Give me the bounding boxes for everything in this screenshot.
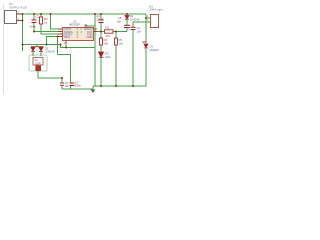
svg-text:SUPPLY 9-12V: SUPPLY 9-12V (10, 6, 28, 10)
capacitor C7 (70, 83, 75, 86)
capacitor C4 (99, 20, 104, 23)
switch S1 body (33, 58, 43, 66)
svg-text:1k: 1k (44, 21, 48, 25)
svg-text:GREEN: GREEN (150, 48, 159, 52)
wire OUT net (94, 31, 105, 33)
svg-text:D2: D2 (130, 14, 134, 18)
svg-text:LED: LED (105, 55, 110, 59)
svg-text:100n: 100n (30, 25, 37, 29)
svg-text:10n: 10n (137, 30, 142, 34)
resistor R5 (115, 38, 118, 45)
wire TRIG branch to C7 (58, 37, 71, 83)
wire jog to y47.5 (61, 45, 96, 48)
wire VCC pin branch (86, 26, 95, 27)
svg-text:C4: C4 (97, 14, 101, 18)
svg-text:D4: D4 (150, 44, 154, 48)
diode D1b (39, 47, 43, 51)
wire THRES net (34, 31, 62, 33)
capacitor C1 (32, 20, 37, 23)
LED D3 (99, 52, 104, 57)
wire x127 column (126, 14, 128, 15)
svg-text:C1: C1 (36, 15, 40, 19)
svg-text:P1: P1 (10, 2, 14, 6)
svg-text:C5: C5 (118, 16, 122, 20)
wire box bottom down (38, 71, 62, 78)
resistor R2 (105, 30, 114, 33)
capacitor C2 (131, 27, 136, 29)
resistor R6 coil (36, 66, 41, 71)
svg-text:10u: 10u (117, 19, 122, 23)
wire R1 top lead (40, 14, 42, 17)
wire R1 bottom to RESET (41, 24, 62, 34)
svg-text:10k: 10k (119, 42, 124, 46)
junction dots (22, 13, 147, 87)
ground (91, 90, 96, 94)
capacitor C5 (124, 25, 130, 27)
wire C4 top lead (100, 14, 102, 20)
wire node row y44 (23, 44, 61, 46)
diode D1a (31, 47, 44, 52)
svg-text:10k: 10k (104, 42, 109, 46)
resistor R3 (100, 38, 103, 45)
svg-text:R2: R2 (106, 26, 110, 30)
resistor R1 (40, 17, 43, 24)
svg-text:100R: 100R (35, 61, 41, 65)
svg-text:1N4148: 1N4148 (130, 17, 140, 21)
svg-text:1N4148: 1N4148 (45, 50, 55, 54)
wire x133 column (132, 30, 134, 87)
wire top bus VCC (21, 13, 146, 15)
module boundary box (pale green rounded) (29, 55, 47, 71)
svg-text:230V main: 230V main (150, 8, 163, 12)
svg-text:100n: 100n (75, 84, 81, 88)
wire R3 chain (100, 32, 102, 39)
diode D2 (125, 16, 129, 20)
wire comp2 column (70, 86, 72, 89)
svg-text:100nF: 100nF (97, 18, 105, 22)
svg-text:GND: GND (87, 35, 93, 39)
wire bottom bus (93, 85, 146, 87)
wire relay pin2 to x133 (133, 22, 150, 27)
wire C1 top lead (33, 14, 35, 20)
wire diode bottoms to box (32, 52, 34, 56)
wire connector pin1 (17, 13, 21, 15)
wire supply drop column (22, 14, 24, 51)
svg-text:TRIG: TRIG (64, 35, 70, 39)
svg-text:10n: 10n (65, 85, 70, 88)
wire left gnd bus (62, 88, 93, 90)
wire gnd stem (92, 86, 94, 90)
LED D4 (143, 41, 148, 48)
wire connector pin2 down (17, 20, 23, 22)
wire IC GND stub (65, 41, 67, 48)
wire relay pin1 (146, 14, 150, 18)
sheet frame left edge (3, 4, 5, 94)
svg-text:NE555P: NE555P (69, 23, 80, 27)
wire TRIG down (47, 37, 63, 45)
wire x48 down to CONT (51, 14, 63, 29)
wire VCC drop x95 (94, 14, 96, 86)
wire comp1 column (61, 78, 63, 83)
capacitor C6 (60, 83, 64, 85)
op-amp U1 555 timer (63, 28, 94, 41)
wire LED1 column (145, 18, 147, 43)
wire x116 column (115, 32, 117, 39)
relay K1 (151, 15, 159, 28)
wire diode pair top stub (36, 45, 38, 47)
wire C4 bottom lead (100, 23, 102, 32)
wire C1 bottom lead (33, 23, 35, 32)
connector P1 (5, 11, 17, 24)
